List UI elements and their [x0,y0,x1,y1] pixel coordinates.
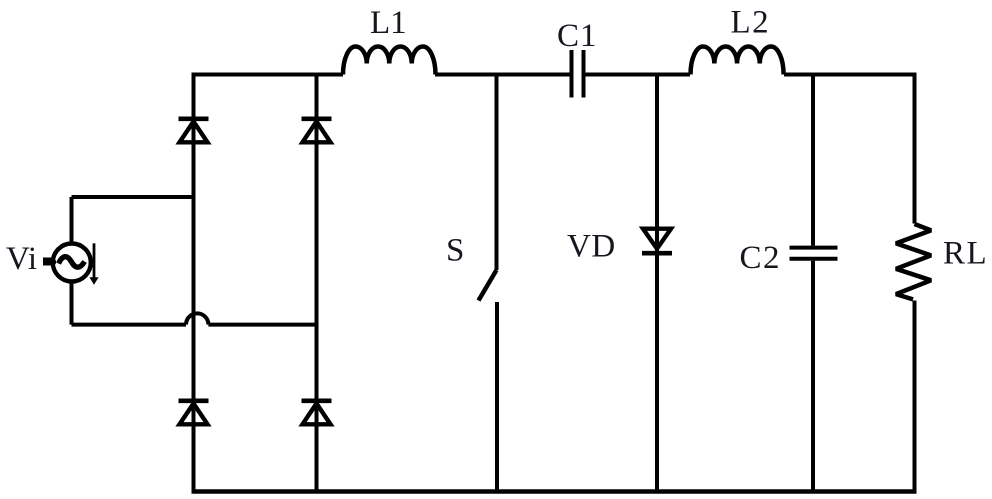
svg-text:C1: C1 [557,18,598,54]
svg-text:VD: VD [567,229,616,265]
svg-text:S: S [446,233,464,269]
svg-text:Vi: Vi [6,241,37,277]
svg-text:L1: L1 [370,5,407,41]
svg-text:RL: RL [943,236,988,272]
svg-text:L2: L2 [731,5,771,41]
svg-text:C2: C2 [740,240,782,276]
